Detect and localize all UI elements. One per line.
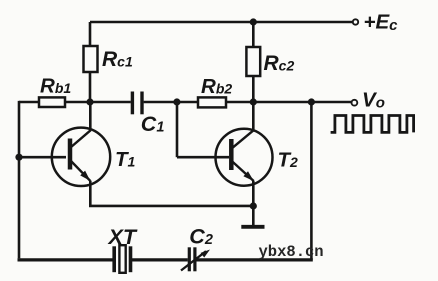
svg-text:XT: XT [108, 225, 138, 249]
svg-text:ybx8.cn: ybx8.cn [259, 243, 324, 261]
